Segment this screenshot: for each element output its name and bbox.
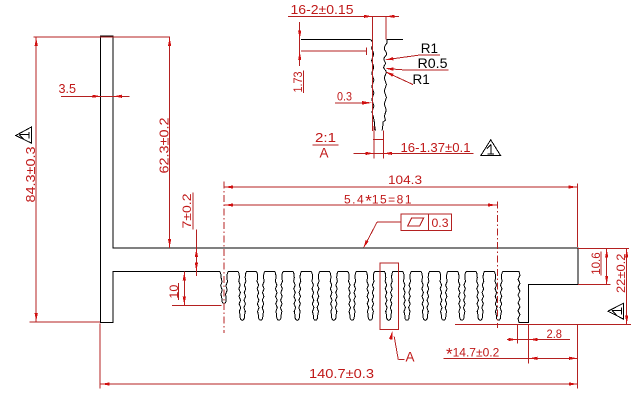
dimension 1.73 underline bbox=[302, 71, 304, 94]
dimension 10 (first fin height): line bbox=[183, 272, 185, 306]
svg-text:5.4*15=81: 5.4*15=81 bbox=[344, 192, 413, 211]
svg-text:*14.7±0.2: *14.7±0.2 bbox=[446, 345, 500, 364]
dimension 140.7±0.3: line bbox=[101, 383, 579, 385]
dimension 84.3±0.3 top extension line bbox=[34, 36, 171, 38]
dimension 1.73: line and outside arrows bbox=[299, 22, 301, 66]
detail extension line left (x=372.7) bbox=[372, 16, 374, 131]
dimension 10 underline bbox=[178, 283, 180, 300]
svg-text:R1: R1 bbox=[421, 41, 438, 56]
svg-text:A: A bbox=[320, 146, 329, 161]
extension line x=528.5 (tab right) bbox=[528, 324, 530, 363]
svg-text:140.7±0.3: 140.7±0.3 bbox=[309, 366, 374, 381]
svg-text:R0.5: R0.5 bbox=[418, 56, 448, 71]
svg-text:3.5: 3.5 bbox=[59, 81, 77, 96]
dimension 7±0.2 underline bbox=[192, 193, 194, 230]
R1 upper leader bbox=[422, 54, 441, 56]
svg-text:0.3: 0.3 bbox=[432, 216, 449, 230]
dimension 16-2±0.15: line and outside arrows bbox=[288, 15, 399, 17]
dimension 3.5 (wall thickness): line and outside arrows bbox=[61, 95, 130, 97]
revision flag 1 (left, rotated) bbox=[16, 127, 32, 143]
dimension *14.7±0.2: line bbox=[444, 357, 579, 359]
centerline through last fin (dash-dot) bbox=[497, 202, 499, 329]
svg-text:104.3: 104.3 bbox=[388, 173, 422, 187]
dimension 140.7 left extension line bbox=[99, 324, 101, 389]
dimension 2.8: line and outside arrows bbox=[507, 339, 570, 341]
parallelism feature control frame box bbox=[401, 214, 452, 230]
R1 lower leader bbox=[387, 73, 413, 85]
dimension 2.8 left extension line bbox=[516, 324, 518, 343]
extension line at y=284.7 right bbox=[578, 284, 611, 286]
dimension 5.4*15=81: line bbox=[224, 204, 497, 206]
detail A: slot bottom left + fin left serrated edge bbox=[301, 39, 375, 130]
centerline through first fin (dash-dot) bbox=[223, 182, 225, 333]
detail A: fin right serrated edge + slot bottom right bbox=[382, 39, 403, 130]
dimension 10 bottom extension line bbox=[172, 305, 222, 307]
svg-text:R1: R1 bbox=[413, 72, 430, 87]
svg-text:2.8: 2.8 bbox=[547, 327, 563, 341]
dimension 16-1.37±0.1: line and outside arrows bbox=[354, 152, 474, 154]
svg-text:A: A bbox=[406, 350, 415, 365]
dimension 62.3±0.2: line bbox=[169, 37, 171, 248]
extension line at y=248.7 right bbox=[578, 248, 629, 250]
parallelism leader with arrow bbox=[377, 221, 401, 223]
revision flag 1 (detail, upright) bbox=[481, 140, 500, 156]
detail label divider line bbox=[313, 144, 339, 146]
dimension 140.7 right extension line bbox=[577, 324, 579, 388]
svg-text:16-1.37±0.1: 16-1.37±0.1 bbox=[401, 141, 471, 155]
dimension 84.3±0.3 bottom extension line bbox=[30, 321, 101, 323]
detail A leader with arrow bbox=[389, 331, 393, 340]
svg-text:0.3: 0.3 bbox=[337, 89, 352, 103]
dimension 22±0.2: line bbox=[626, 249, 628, 325]
svg-text:7±0.2: 7±0.2 bbox=[180, 193, 194, 228]
dimension 0.3 underline leader with arrow bbox=[335, 102, 363, 104]
dimension 10.6: line bbox=[606, 249, 608, 285]
revision flag 1 (right, rotated) bbox=[608, 303, 623, 319]
svg-text:16-2±0.15: 16-2±0.15 bbox=[291, 2, 354, 17]
detail fin tip extension lines and cap bbox=[373, 126, 375, 159]
R0.5 leader bbox=[404, 69, 449, 71]
dimension 104.3: line bbox=[224, 186, 578, 188]
dimension 84.3±0.3 (overall height): line bbox=[35, 37, 37, 322]
svg-text:2:1: 2:1 bbox=[315, 130, 336, 145]
svg-text:22±0.2: 22±0.2 bbox=[614, 253, 628, 293]
svg-text:62.3±0.2: 62.3±0.2 bbox=[157, 117, 171, 173]
detail A indicator box around fin 10 bbox=[380, 263, 398, 329]
extension line at y=324.4 bottom right bbox=[455, 323, 631, 325]
heatsink profile outline with 16 serrated fins, left wall and right foot bbox=[101, 36, 579, 323]
dimension 7±0.2 (base thickness): line bbox=[195, 230, 197, 276]
detail extension line right top (x=385.8) bbox=[385, 16, 387, 39]
svg-text:84.3±0.3: 84.3±0.3 bbox=[24, 146, 38, 202]
dimension 1.73 lower extension line with tick bbox=[301, 50, 367, 52]
dimension 104.3 right extension line bbox=[577, 184, 579, 248]
dimension 10.6 underline bbox=[600, 252, 602, 276]
